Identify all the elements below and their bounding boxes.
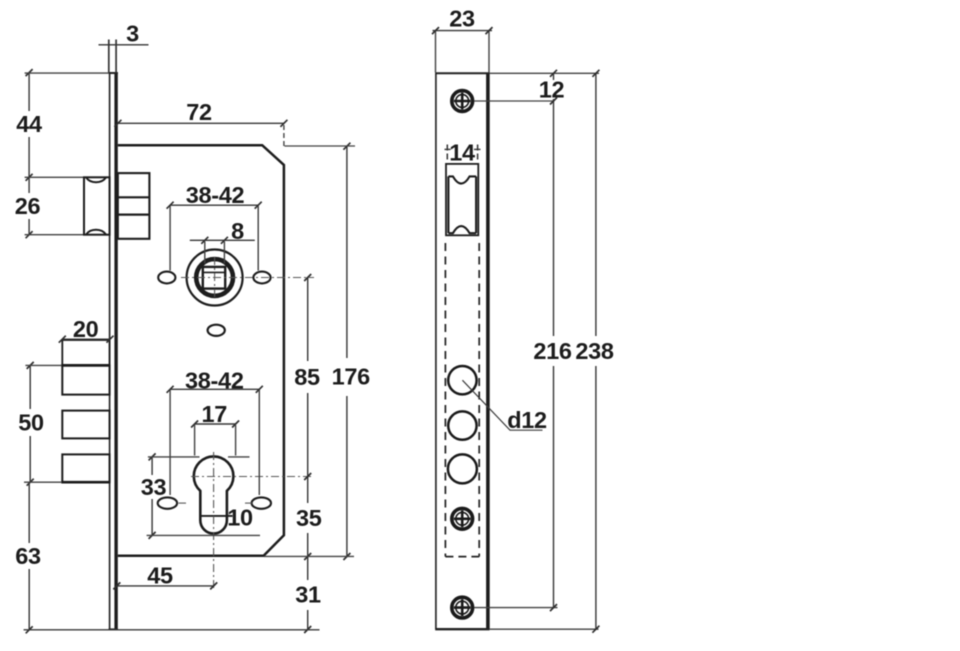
dim 50 tick top — [27, 362, 34, 369]
dim 33 tick top — [149, 453, 156, 460]
plate right edge (thick) — [486, 73, 490, 629]
bottom ext line — [24, 629, 320, 631]
hub right screw slot — [253, 272, 270, 284]
hole d12 #2 — [448, 411, 476, 439]
deadbolt plate 2 thick top edge — [61, 364, 109, 367]
svg-text:14: 14 — [449, 139, 475, 165]
dim 38-42 upper tick left — [167, 202, 174, 209]
deadbolt plate 2 — [62, 365, 109, 394]
dim 38-42 lower tick right — [256, 386, 263, 393]
cylinder stem line (10 dim line) — [201, 515, 233, 517]
dim 17 ext right — [235, 425, 237, 456]
latch tail divider 2 — [118, 214, 150, 216]
middle screw — [452, 508, 473, 529]
dim 26 line — [28, 177, 30, 193]
ext line cylinder bottom — [147, 534, 260, 536]
dim 45 tick right — [210, 582, 217, 589]
dim 72 tick left — [114, 120, 121, 127]
dim 3 line — [99, 44, 149, 46]
dim 17 ext left — [194, 425, 196, 456]
dim 38-42 upper ext left — [169, 206, 171, 271]
svg-text:10: 10 — [227, 505, 253, 531]
dim 33 tick bottom — [149, 532, 156, 539]
ext line cylinder top — [148, 456, 200, 458]
small oval below hub — [208, 325, 225, 336]
latch face left edge — [447, 176, 449, 233]
dim 176 vertical line — [346, 146, 348, 358]
dim 8 ext left — [204, 242, 206, 264]
plate bottom edge — [435, 628, 489, 630]
dim 38-42 upper ext right — [257, 206, 259, 271]
latch face bottom edge with arc — [448, 226, 476, 233]
spindle hub inner ring (thick) — [196, 259, 233, 296]
faceplate strip left edge — [109, 73, 111, 630]
plate top edge — [435, 72, 489, 74]
dim 20 tick left — [59, 336, 66, 343]
bottom screw leader line — [474, 607, 558, 609]
dim 38-42 lower ext right — [258, 390, 260, 495]
dim 3 ext right — [115, 40, 117, 73]
dim 50 line — [29, 365, 31, 409]
dim 216 tick top — [550, 98, 557, 105]
faceplate strip top cap — [109, 72, 118, 74]
dim 26 tick bottom — [26, 231, 33, 238]
dim 23 tick left — [432, 27, 439, 34]
ext line bolt bottom — [24, 481, 61, 483]
dim 38-42 lower ext left — [169, 390, 171, 495]
top screw — [452, 91, 473, 112]
svg-text:31: 31 — [295, 582, 321, 608]
dim 12 tick top — [550, 70, 557, 77]
latch tail divider 1 — [118, 196, 150, 198]
bottom ext line right view — [490, 628, 599, 630]
cylinder right screw slot — [252, 497, 271, 508]
svg-text:216: 216 — [533, 338, 572, 364]
svg-text:26: 26 — [15, 193, 41, 219]
svg-text:33: 33 — [141, 474, 167, 500]
dim 176 tick top — [343, 143, 350, 150]
svg-text:17: 17 — [202, 401, 228, 427]
dim 23 line — [433, 30, 493, 32]
latch bolt head — [84, 177, 110, 234]
dim 14 line segments — [445, 148, 451, 150]
dim 63 line — [28, 483, 30, 543]
dim 33 line — [151, 457, 153, 475]
svg-text:50: 50 — [18, 409, 44, 435]
ext line latch bottom — [25, 234, 83, 236]
plate left edge — [435, 73, 437, 629]
svg-text:85: 85 — [294, 364, 320, 390]
dim 216 tick bottom — [550, 604, 557, 611]
cylinder vertical centerline — [213, 452, 215, 589]
dim 23 tick right — [486, 27, 493, 34]
hole d12 #1 — [448, 366, 476, 394]
svg-text:12: 12 — [539, 76, 565, 102]
dim 38-42 lower line — [170, 388, 259, 390]
dim 176 tick bottom — [343, 553, 350, 560]
dim 238 tick top — [592, 70, 599, 77]
dim 72 line — [118, 122, 284, 124]
dim 44 line — [28, 73, 30, 111]
latch cutout rectangle — [446, 164, 478, 235]
svg-text:23: 23 — [449, 6, 475, 32]
svg-text:38-42: 38-42 — [186, 182, 245, 208]
dim 8 tick right — [221, 237, 228, 244]
slot centerline dash right — [245, 502, 252, 504]
dim 238 vertical line — [595, 73, 597, 336]
hub vertical centerline — [214, 257, 216, 298]
latch tail block — [118, 173, 150, 239]
ext line latch top — [25, 176, 83, 178]
dim 17 tick right — [232, 421, 239, 428]
svg-text:8: 8 — [231, 218, 244, 244]
dim 35/31 tick — [304, 553, 311, 560]
svg-text:176: 176 — [332, 364, 371, 390]
dim 50 tick bottom — [27, 479, 34, 486]
svg-text:38-42: 38-42 — [185, 368, 244, 394]
dim 38-42 upper line — [170, 204, 258, 206]
dim 23 ext right — [488, 32, 490, 73]
dim 45 line — [117, 585, 214, 587]
deadbolt plate 1 — [62, 340, 109, 365]
ext line cylinder top right part — [228, 456, 250, 458]
spindle square hole — [203, 267, 225, 289]
slot centerline dash left — [179, 502, 187, 504]
dim 85 tick top — [304, 274, 311, 281]
deadbolt plate 3 — [62, 411, 109, 439]
hub left screw slot — [158, 272, 175, 284]
dim 31 tick bottom — [304, 626, 311, 633]
dim 12/216 vertical line — [553, 73, 555, 80]
ext line bolt top — [25, 364, 61, 366]
hidden case dashed right edge — [478, 243, 480, 557]
spindle hub outer circle — [187, 250, 243, 306]
dim 44 tick top — [26, 69, 33, 76]
svg-text:63: 63 — [15, 543, 41, 569]
latch bolt bottom arc — [86, 230, 106, 235]
svg-text:44: 44 — [16, 111, 42, 137]
svg-text:72: 72 — [186, 99, 212, 125]
cylinder horizontal centerline — [191, 476, 314, 478]
svg-text:20: 20 — [73, 316, 99, 342]
dim 3 ext left — [108, 40, 110, 73]
dim 44 tick bottom — [26, 174, 33, 181]
dim 14 ext ticks — [446, 145, 448, 163]
dim 8 line — [190, 239, 255, 241]
dim 8 tick left — [201, 237, 208, 244]
dim 85/35/31 vertical line — [307, 278, 309, 361]
dim 38-42 lower tick left — [167, 386, 174, 393]
ext line strip top — [25, 72, 109, 74]
faceplate strip bottom cap — [109, 628, 118, 630]
hidden case dashed bottom edge — [445, 556, 479, 558]
ext line case top — [285, 145, 356, 147]
top screw leader line — [474, 100, 554, 102]
dim 72 tick right — [280, 120, 287, 127]
dim 72 ext right — [283, 125, 285, 146]
dim 63 tick bottom — [26, 626, 33, 633]
dim 17 line — [195, 423, 236, 425]
latch face top edge with arc — [448, 176, 476, 183]
deadbolt plate 4 thick bottom edge — [61, 481, 109, 484]
svg-text:d12: d12 — [507, 407, 547, 433]
hole d12 #3 — [448, 454, 477, 483]
ext line case bottom — [264, 555, 354, 557]
dim 45 tick left — [113, 582, 120, 589]
dim 23 ext left — [435, 32, 437, 73]
latch bolt top arc — [86, 178, 106, 183]
lock case outline — [118, 145, 284, 556]
dim 20 line — [62, 338, 110, 340]
deadbolt plate 4 — [62, 454, 109, 482]
dim 8 ext right — [223, 242, 225, 264]
faceplate strip right edge (thick) — [114, 73, 117, 630]
svg-text:35: 35 — [296, 505, 322, 531]
dim 17 tick left — [191, 421, 198, 428]
euro cylinder profile — [194, 456, 234, 533]
dim 38-42 upper tick right — [255, 202, 262, 209]
svg-text:3: 3 — [126, 21, 139, 47]
top ext line right view — [490, 72, 599, 74]
svg-text:238: 238 — [575, 338, 614, 364]
spindle square inner line — [203, 271, 225, 273]
cylinder left screw slot — [158, 497, 177, 508]
bottom screw — [452, 597, 473, 618]
latch face right edge — [475, 176, 477, 233]
d12 leader line — [462, 380, 542, 430]
hidden case dashed left edge — [444, 243, 446, 557]
dim 85/35 tick middle — [304, 473, 311, 480]
dim 20 tick right — [107, 336, 114, 343]
hub horizontal centerline — [181, 277, 314, 279]
svg-text:45: 45 — [147, 563, 173, 589]
dim 238 tick bottom — [592, 626, 599, 633]
